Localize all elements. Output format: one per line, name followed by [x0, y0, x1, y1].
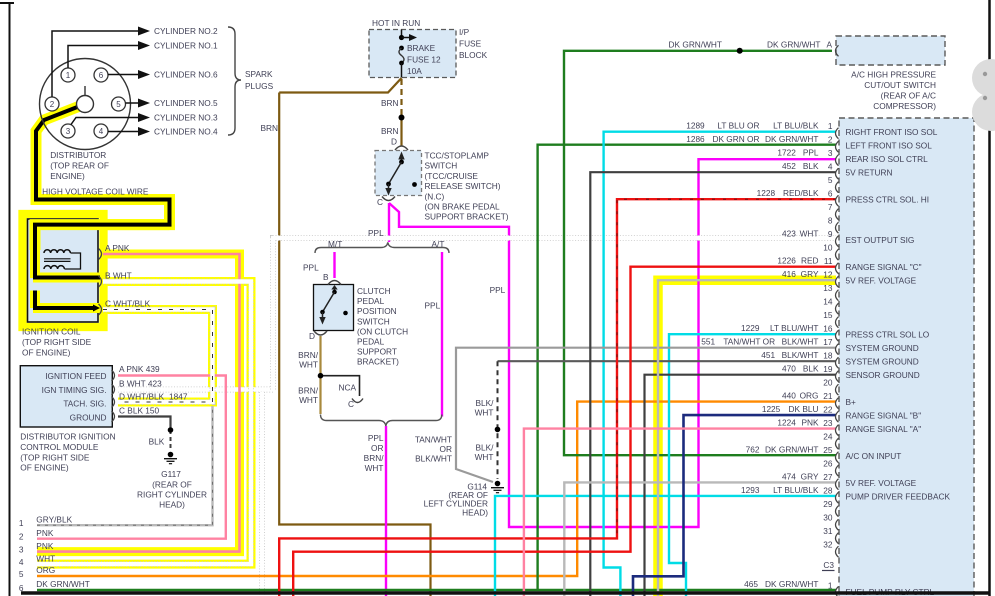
svg-text:CYLINDER NO.2: CYLINDER NO.2 [154, 26, 218, 36]
svg-text:TCC/STOPLAMP: TCC/STOPLAMP [425, 151, 490, 161]
svg-text:LT BLU/WHT: LT BLU/WHT [770, 323, 819, 333]
svg-text:WHT: WHT [299, 395, 318, 405]
svg-text:FUSE: FUSE [459, 39, 482, 49]
svg-text:DK GRN/WHT: DK GRN/WHT [767, 40, 820, 50]
svg-text:DK GRN/WHT: DK GRN/WHT [765, 134, 818, 144]
svg-text:BRN: BRN [381, 126, 399, 136]
svg-text:1: 1 [828, 121, 833, 131]
svg-text:5: 5 [116, 100, 121, 109]
svg-text:OF ENGINE): OF ENGINE) [22, 348, 71, 358]
svg-text:OR: OR [371, 443, 383, 453]
svg-text:RED/BLK: RED/BLK [783, 188, 819, 198]
svg-text:DK GRN/WHT: DK GRN/WHT [36, 579, 89, 589]
svg-text:A/C HIGH PRESSURE: A/C HIGH PRESSURE [851, 70, 936, 80]
svg-text:CYLINDER NO.4: CYLINDER NO.4 [154, 127, 218, 137]
svg-text:PPL: PPL [303, 263, 319, 273]
svg-text:C WHT/BLK: C WHT/BLK [105, 299, 151, 309]
svg-text:1228: 1228 [757, 188, 776, 198]
svg-text:470: 470 [782, 364, 796, 374]
svg-text:RANGE SIGNAL "A": RANGE SIGNAL "A" [846, 424, 922, 434]
svg-text:16: 16 [823, 324, 833, 334]
svg-text:SUPPORT: SUPPORT [357, 347, 397, 357]
svg-text:LT BLU/BLK: LT BLU/BLK [773, 485, 819, 495]
svg-text:CYLINDER NO.5: CYLINDER NO.5 [154, 98, 218, 108]
svg-text:RIGHT CYLINDER: RIGHT CYLINDER [137, 490, 207, 500]
svg-text:BLK/WHT: BLK/WHT [782, 337, 819, 347]
svg-text:551: 551 [701, 337, 715, 347]
svg-text:1226: 1226 [777, 256, 796, 266]
svg-text:4: 4 [99, 127, 104, 136]
svg-text:A/T: A/T [432, 239, 445, 249]
svg-text:SPARK: SPARK [245, 69, 273, 79]
svg-text:PPL: PPL [803, 148, 819, 158]
svg-text:25: 25 [823, 445, 833, 455]
svg-text:29: 29 [823, 499, 833, 509]
svg-text:465: 465 [744, 579, 758, 589]
svg-text:1229: 1229 [741, 323, 760, 333]
svg-text:BRAKE: BRAKE [407, 43, 436, 53]
svg-text:DK GRN/WHT: DK GRN/WHT [669, 40, 722, 50]
svg-text:DISTRIBUTOR IGNITION: DISTRIBUTOR IGNITION [20, 432, 115, 442]
svg-text:1: 1 [828, 581, 833, 591]
svg-text:PNK: PNK [801, 418, 819, 428]
svg-text:2: 2 [19, 532, 24, 542]
svg-text:G117: G117 [161, 469, 181, 479]
svg-text:CUT/OUT SWITCH: CUT/OUT SWITCH [864, 80, 936, 90]
svg-text:HEAD): HEAD) [462, 507, 488, 517]
svg-text:LEFT FRONT ISO SOL: LEFT FRONT ISO SOL [846, 141, 933, 151]
svg-text:14: 14 [823, 297, 833, 307]
svg-text:WHT: WHT [800, 229, 819, 239]
svg-text:27: 27 [823, 472, 833, 482]
svg-text:CLUTCH: CLUTCH [357, 286, 391, 296]
svg-text:RIGHT FRONT ISO SOL: RIGHT FRONT ISO SOL [846, 127, 938, 137]
svg-text:LT BLU OR: LT BLU OR [717, 121, 759, 131]
svg-text:10A: 10A [407, 66, 422, 76]
svg-text:BRACKET): BRACKET) [357, 357, 399, 367]
svg-text:(ON BRAKE PEDAL: (ON BRAKE PEDAL [425, 202, 501, 212]
svg-text:3: 3 [828, 148, 833, 158]
svg-text:EST OUTPUT SIG: EST OUTPUT SIG [846, 235, 915, 245]
svg-text:DK GRN OR: DK GRN OR [712, 134, 759, 144]
svg-text:TACH. SIG.: TACH. SIG. [63, 399, 106, 409]
svg-text:SUPPORT BRACKET): SUPPORT BRACKET) [425, 212, 509, 222]
svg-text:24: 24 [823, 432, 833, 442]
svg-text:RED: RED [801, 256, 819, 266]
svg-text:HIGH VOLTAGE COIL WIRE: HIGH VOLTAGE COIL WIRE [42, 187, 149, 197]
svg-text:CYLINDER NO.1: CYLINDER NO.1 [154, 41, 218, 51]
svg-text:C: C [348, 399, 354, 409]
svg-text:PNK: PNK [36, 528, 54, 538]
svg-text:1293: 1293 [741, 485, 760, 495]
svg-text:10: 10 [823, 243, 833, 253]
svg-text:A: A [827, 40, 833, 50]
svg-text:WHT: WHT [475, 452, 494, 462]
svg-text:PUMP DRIVER FEEDBACK: PUMP DRIVER FEEDBACK [846, 492, 951, 502]
svg-text:BLK: BLK [803, 161, 819, 171]
svg-text:31: 31 [823, 526, 833, 536]
svg-text:4: 4 [19, 557, 24, 567]
svg-text:OF ENGINE): OF ENGINE) [20, 463, 69, 473]
svg-text:GROUND: GROUND [70, 412, 107, 422]
svg-text:PRESS CTRL SOL LO: PRESS CTRL SOL LO [846, 330, 930, 340]
svg-text:BRN: BRN [381, 98, 399, 108]
svg-text:BLK: BLK [803, 364, 819, 374]
svg-text:C: C [377, 197, 383, 207]
svg-text:RANGE SIGNAL "C": RANGE SIGNAL "C" [846, 262, 922, 272]
svg-text:COMPRESSOR): COMPRESSOR) [873, 101, 936, 111]
svg-text:RANGE SIGNAL "B": RANGE SIGNAL "B" [846, 411, 922, 421]
svg-text:PPL: PPL [368, 433, 384, 443]
svg-text:9: 9 [828, 229, 833, 239]
svg-text:440: 440 [782, 391, 796, 401]
svg-text:WHT: WHT [365, 463, 384, 473]
svg-text:IGN TIMING SIG.: IGN TIMING SIG. [42, 385, 107, 395]
svg-text:2: 2 [828, 135, 833, 145]
svg-text:13: 13 [823, 283, 833, 293]
svg-text:19: 19 [823, 364, 833, 374]
svg-text:BLK/WHT: BLK/WHT [782, 350, 819, 360]
svg-text:WHT: WHT [475, 408, 494, 418]
svg-text:C3: C3 [823, 560, 834, 570]
svg-text:M/T: M/T [328, 239, 342, 249]
svg-text:A PNK 439: A PNK 439 [119, 364, 160, 374]
svg-text:LT BLU/BLK: LT BLU/BLK [773, 121, 819, 131]
svg-text:DISTRIBUTOR: DISTRIBUTOR [50, 150, 106, 160]
svg-text:HOT IN RUN: HOT IN RUN [372, 18, 420, 28]
svg-text:ORG: ORG [36, 565, 55, 575]
svg-text:WHT: WHT [299, 359, 318, 369]
svg-text:30: 30 [823, 513, 833, 523]
svg-text:PPL: PPL [490, 285, 506, 295]
svg-text:5: 5 [19, 569, 24, 579]
svg-text:PRESS CTRL SOL. HI: PRESS CTRL SOL. HI [846, 195, 930, 205]
svg-text:(ON CLUTCH: (ON CLUTCH [357, 326, 408, 336]
svg-text:17: 17 [823, 337, 833, 347]
svg-text:1: 1 [19, 518, 24, 528]
svg-text:423: 423 [782, 229, 796, 239]
svg-text:416: 416 [782, 269, 796, 279]
svg-text:BLK/: BLK/ [476, 398, 495, 408]
svg-text:11: 11 [824, 256, 833, 266]
svg-text:CYLINDER NO.3: CYLINDER NO.3 [154, 113, 218, 123]
svg-text:5V REF. VOLTAGE: 5V REF. VOLTAGE [846, 478, 917, 488]
svg-text:A PNK: A PNK [105, 243, 130, 253]
svg-text:1224: 1224 [777, 418, 796, 428]
svg-text:20: 20 [823, 378, 833, 388]
svg-text:1225: 1225 [762, 404, 781, 414]
svg-text:1286: 1286 [686, 134, 705, 144]
svg-text:DK GRN/WHT: DK GRN/WHT [765, 579, 818, 589]
svg-text:BRN/: BRN/ [364, 453, 385, 463]
svg-text:DK BLU: DK BLU [789, 404, 819, 414]
svg-text:BLK: BLK [149, 436, 165, 446]
svg-text:OR: OR [440, 444, 452, 454]
svg-text:BRN: BRN [261, 123, 279, 133]
svg-text:PEDAL: PEDAL [357, 337, 385, 347]
svg-text:5V REF. VOLTAGE: 5V REF. VOLTAGE [846, 276, 917, 286]
svg-text:BLOCK: BLOCK [459, 50, 488, 60]
svg-text:C BLK 150: C BLK 150 [119, 406, 160, 416]
svg-text:PEDAL: PEDAL [357, 296, 385, 306]
svg-text:GRY: GRY [801, 269, 819, 279]
svg-text:POSITION: POSITION [357, 306, 397, 316]
svg-text:1289: 1289 [686, 121, 705, 131]
svg-text:474: 474 [782, 472, 796, 482]
svg-text:B WHT: B WHT [105, 271, 132, 281]
svg-text:GRY/BLK: GRY/BLK [36, 514, 72, 524]
svg-text:(TOP REAR OF: (TOP REAR OF [50, 161, 109, 171]
svg-text:REAR ISO SOL CTRL: REAR ISO SOL CTRL [846, 154, 929, 164]
svg-text:3: 3 [66, 127, 71, 136]
svg-text:BLK/WHT: BLK/WHT [415, 454, 452, 464]
svg-text:D: D [391, 137, 397, 147]
svg-text:SWITCH: SWITCH [425, 161, 458, 171]
svg-text:7: 7 [828, 202, 833, 212]
svg-text:(REAR OF A/C: (REAR OF A/C [881, 91, 936, 101]
svg-text:(TOP RIGHT SIDE: (TOP RIGHT SIDE [20, 452, 90, 462]
svg-text:B: B [323, 272, 329, 282]
svg-text:5: 5 [828, 175, 833, 185]
svg-text:IGNITION FEED: IGNITION FEED [45, 371, 106, 381]
svg-text:6: 6 [828, 189, 833, 199]
svg-text:2: 2 [50, 100, 55, 109]
svg-text:(TOP RIGHT SIDE: (TOP RIGHT SIDE [22, 337, 92, 347]
svg-text:TAN/WHT OR: TAN/WHT OR [723, 337, 775, 347]
svg-text:3: 3 [19, 545, 24, 555]
svg-text:B+: B+ [846, 397, 857, 407]
svg-text:SENSOR GROUND: SENSOR GROUND [846, 370, 920, 380]
svg-text:PNK: PNK [36, 541, 54, 551]
svg-text:15: 15 [823, 310, 833, 320]
svg-text:ORG: ORG [800, 391, 819, 401]
svg-text:5V RETURN: 5V RETURN [846, 168, 893, 178]
svg-text:1722: 1722 [777, 148, 796, 158]
svg-text:18: 18 [823, 351, 833, 361]
svg-text:ENGINE): ENGINE) [50, 171, 85, 181]
svg-text:1: 1 [66, 71, 71, 80]
svg-text:FUSE 12: FUSE 12 [407, 55, 441, 65]
svg-text:SYSTEM GROUND: SYSTEM GROUND [846, 357, 919, 367]
svg-text:32: 32 [823, 540, 833, 550]
svg-text:12: 12 [823, 270, 833, 280]
svg-text:NCA: NCA [339, 383, 357, 393]
svg-text:4: 4 [828, 162, 833, 172]
svg-text:CONTROL MODULE: CONTROL MODULE [20, 442, 99, 452]
svg-text:(REAR OF: (REAR OF [152, 480, 192, 490]
svg-text:1847: 1847 [169, 392, 188, 402]
svg-text:D WHT/BLK: D WHT/BLK [119, 392, 165, 402]
svg-text:HEAD): HEAD) [159, 500, 185, 510]
svg-text:RELEASE SWITCH): RELEASE SWITCH) [425, 181, 501, 191]
svg-text:DK GRN/WHT: DK GRN/WHT [765, 445, 818, 455]
svg-text:28: 28 [823, 486, 833, 496]
svg-text:26: 26 [823, 459, 833, 469]
svg-text:TAN/WHT: TAN/WHT [415, 435, 452, 445]
svg-text:PLUGS: PLUGS [245, 81, 274, 91]
svg-text:21: 21 [823, 391, 833, 401]
svg-text:GRY: GRY [801, 472, 819, 482]
svg-text:451: 451 [761, 350, 775, 360]
svg-text:(N.C): (N.C) [425, 191, 445, 201]
svg-text:IGNITION COIL: IGNITION COIL [22, 327, 81, 337]
svg-text:(TCC/CRUISE: (TCC/CRUISE [425, 171, 479, 181]
svg-text:22: 22 [823, 405, 833, 415]
svg-text:WHT: WHT [36, 553, 55, 563]
svg-text:CYLINDER NO.6: CYLINDER NO.6 [154, 70, 218, 80]
svg-text:PPL: PPL [425, 301, 441, 311]
svg-text:SYSTEM GROUND: SYSTEM GROUND [846, 343, 919, 353]
svg-text:BLK/: BLK/ [476, 443, 495, 453]
svg-text:23: 23 [823, 418, 833, 428]
svg-text:762: 762 [746, 445, 760, 455]
svg-text:PPL: PPL [368, 228, 384, 238]
svg-text:A/C ON INPUT: A/C ON INPUT [846, 451, 902, 461]
svg-text:SWITCH: SWITCH [357, 316, 390, 326]
svg-text:6: 6 [99, 71, 104, 80]
svg-text:I/P: I/P [459, 27, 470, 37]
svg-text:D: D [309, 331, 315, 341]
svg-text:B WHT 423: B WHT 423 [119, 379, 162, 389]
svg-text:452: 452 [782, 161, 796, 171]
svg-text:8: 8 [828, 216, 833, 226]
